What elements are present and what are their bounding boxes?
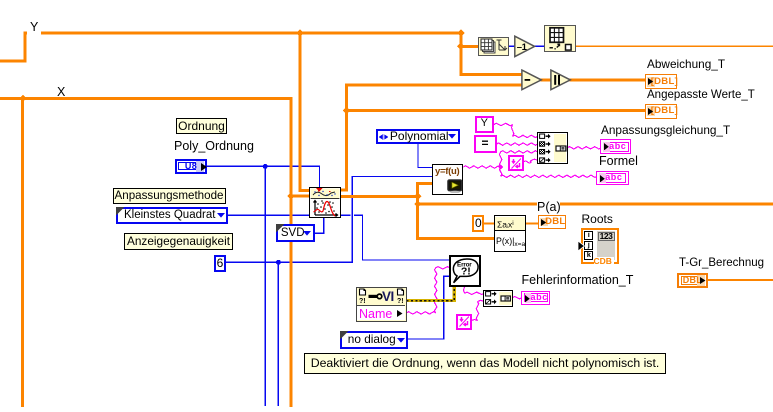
wire best-fit output up [340, 84, 525, 192]
wire Anzeigegenauigkeit 6 horizontal [226, 262, 352, 263]
wire SVD to node bottom [314, 218, 325, 234]
junction X at node input [287, 193, 294, 200]
wire X into curve-fit node [289, 195, 311, 198]
node convert matrix 1 [478, 37, 510, 57]
wire Y drop to curve-fit node [299, 32, 313, 193]
node negate -1 [514, 35, 536, 58]
constant 6 [214, 255, 226, 272]
label Angepasste Werte_T [647, 89, 755, 101]
wire Kleinstes Quadrat into node [228, 215, 311, 216]
label Y wire [27, 29, 41, 38]
wire Poly_Ordnung to curve-fit [206, 166, 320, 188]
wire Y drop to matrix branch [459, 33, 462, 75]
node curve fitting express VI [309, 187, 341, 218]
wire negate output [534, 46, 545, 47]
wire 6 branch down to bottom [278, 262, 279, 406]
node absolute value [550, 69, 572, 91]
junction Y branch B [457, 29, 464, 36]
wire formula string to Formel indicator [499, 167, 597, 178]
wire error info to indicator [513, 297, 523, 299]
wire error cluster from VI property node [405, 285, 456, 302]
indicator Anpassungsgleichung_T [600, 139, 632, 154]
wire constant 0 to polynomial eval [484, 222, 495, 224]
junction Poly_Ordnung split [263, 164, 268, 169]
wire method jog [354, 215, 363, 216]
label Roots [582, 212, 613, 226]
junction X branch [19, 95, 26, 102]
wire T-Gr_Berechnug to right edge [707, 279, 773, 281]
svg-text:–1: –1 [517, 42, 528, 53]
wire formula string output [464, 166, 501, 168]
wire coefficients to formula node [416, 182, 435, 196]
wire subtract to abs [540, 79, 551, 82]
indicator Roots complex array [581, 228, 619, 264]
wire Poly_Ordnung branch down [265, 166, 266, 406]
label Abweichung_T [647, 57, 725, 71]
wire Polynomial to formula node [417, 142, 434, 168]
constant no dialog ring [340, 331, 408, 349]
node polynomial evaluation [494, 215, 527, 251]
wire concatenated equation to indicator [568, 147, 602, 149]
junction best-fit split [343, 107, 350, 114]
node simple error handler [449, 255, 481, 287]
junction coefficients split 1 [414, 193, 421, 200]
wire Y main horizontal [24, 32, 463, 35]
wire abs output to Abweichung indicator [570, 79, 647, 82]
wire empty-string node to concatenate [524, 159, 538, 163]
control Poly_Ordnung U8 terminal [175, 159, 207, 174]
constant SVD ring [276, 224, 315, 242]
indicator Angepasste Werte_T [645, 104, 677, 119]
label Anpassungsmethode [113, 188, 226, 204]
node concatenate error strings [483, 290, 513, 307]
wire formula string up to concatenate [499, 151, 537, 167]
node label X text [57, 85, 65, 99]
wire 6 up to formula node [352, 176, 435, 263]
wire empty-string 2 to concatenate [472, 300, 485, 320]
node subtract [521, 69, 543, 91]
wire X left vertical to bottom [21, 98, 24, 407]
node y=f(u) formula string [432, 164, 463, 195]
junction matrix branch [457, 43, 464, 50]
wire no dialog to error handler [407, 276, 451, 340]
wire negate input [509, 46, 516, 47]
label Deaktiviert comment [304, 353, 666, 374]
label Anzeigegenauigkeit [124, 233, 233, 250]
label Fehlerinformation_T [522, 273, 634, 287]
wire X main horizontal [0, 97, 292, 100]
junction 6 split [276, 260, 281, 265]
wire Y to subtract top input [459, 73, 522, 76]
indicator P(a) [538, 215, 567, 228]
node number-to-string 2 [456, 314, 472, 330]
wire Y from connector pane [0, 32, 27, 63]
node concatenate strings [537, 132, 568, 163]
wire string = constant to concatenate [497, 143, 538, 145]
node convert matrix 2 [544, 25, 576, 52]
control T-Gr_Berechnug [677, 273, 708, 289]
wire best-fit to Angepasste Werte indicator [345, 109, 647, 112]
label T-Gr_Berechnug [679, 257, 764, 269]
constant string Y [475, 116, 495, 133]
node number-to-string 1 [508, 155, 524, 171]
wire P(a) output [525, 222, 538, 224]
label Formel [599, 154, 638, 168]
label Poly_Ordnung [174, 139, 254, 153]
svg-text:?!: ?! [461, 266, 471, 278]
label Anpassungsgleichung_T [601, 123, 730, 137]
control Kleinstes Quadrat ring [116, 207, 228, 224]
wire X drop behind SVD to bottom [289, 98, 292, 407]
svg-text:?!: ?! [359, 298, 366, 305]
junction coefficients split 2 [414, 201, 421, 208]
wire coefficients down to polynomial eval [416, 195, 496, 240]
wire error message out [463, 287, 484, 295]
constant string = [474, 135, 497, 153]
junction formula string split [498, 164, 503, 169]
constant Polynomial ring [376, 129, 460, 145]
node VI server property Name [356, 287, 407, 322]
wire VI Name to error handler [407, 267, 450, 315]
wire matrix result to right edge [575, 46, 773, 48]
wire coefficients to right edge [416, 203, 773, 206]
wire Y to build-matrix icon [459, 45, 478, 48]
wire method through node to right [341, 215, 350, 216]
indicator Formel [596, 171, 629, 186]
node label Y text [30, 20, 38, 34]
wire string Y constant to concatenate [494, 123, 538, 137]
junction Y branch A [296, 29, 303, 36]
label P(a) [537, 202, 560, 213]
indicator Abweichung_T [645, 74, 677, 89]
coercion dot on curve-fit order input [316, 188, 323, 192]
wire coefficients output [341, 195, 419, 198]
wire method down to error handler [362, 215, 451, 261]
label Ordnung [176, 118, 227, 134]
constant 0 [472, 215, 484, 232]
indicator Fehlerinformation_T [521, 291, 550, 305]
